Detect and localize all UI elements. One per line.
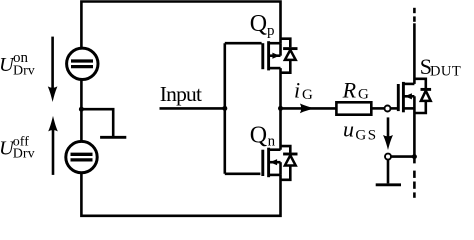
svg-text:Input: Input [160, 82, 202, 106]
svg-text:p: p [267, 23, 275, 39]
svg-text:G: G [358, 87, 369, 103]
svg-text:GS: GS [355, 127, 377, 143]
svg-text:Drv: Drv [13, 147, 35, 162]
svg-text:Q: Q [250, 123, 267, 149]
svg-text:n: n [268, 133, 276, 149]
svg-text:DUT: DUT [430, 64, 461, 80]
svg-text:Q: Q [250, 11, 267, 37]
svg-text:R: R [342, 77, 357, 102]
svg-text:Drv: Drv [13, 63, 35, 78]
svg-text:i: i [294, 77, 300, 102]
svg-text:G: G [302, 87, 313, 103]
svg-text:u: u [343, 116, 354, 141]
